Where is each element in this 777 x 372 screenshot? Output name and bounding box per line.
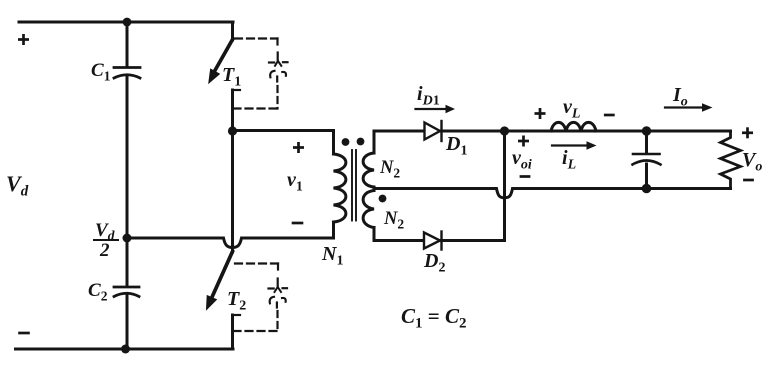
wire output top rail [505, 130, 731, 133]
wire capacitor-leg lower [126, 238, 129, 286]
label + (voi plus) [518, 136, 529, 147]
resistor load Vo [721, 131, 741, 189]
label Vd/2 [94, 220, 118, 261]
transistor T1 [209, 22, 240, 131]
node A (T1/T2 midpoint) [228, 126, 237, 135]
current arrow iD1 [416, 105, 456, 114]
wire capacitor-leg upper [126, 22, 129, 67]
wire D1 branch [374, 130, 505, 133]
wire filter cap bottom lead [645, 164, 648, 189]
node rectifier output [500, 126, 509, 135]
wire D2 branch [374, 239, 505, 242]
wire primary top (node A to winding) [233, 131, 334, 155]
polarity dot primary [342, 138, 350, 146]
wire output return rail with hop [374, 189, 731, 198]
transformer primary winding N1 [334, 154, 346, 222]
node Vd/2 junction [123, 234, 132, 243]
wire secondary bottom stub [373, 228, 376, 241]
wire T-leg middle (node A to T2) [231, 131, 234, 252]
transformer secondary winding N2 bottom [363, 191, 374, 228]
current arrow iL [552, 141, 597, 149]
node filter cap top [642, 126, 651, 135]
node filter cap bottom [642, 184, 652, 194]
label - (Vd minus) [18, 332, 30, 335]
current arrow Io [665, 103, 713, 112]
label + (Vo plus) [742, 127, 753, 138]
wire bottom rail [16, 348, 234, 351]
wire filter cap top lead [645, 131, 648, 153]
capacitor C1 [114, 68, 140, 79]
label - (vL minus) [604, 114, 615, 117]
label + (vL plus) [535, 108, 546, 119]
wire capacitor-leg bottom [126, 296, 129, 349]
wire primary bottom stub [332, 222, 335, 238]
wire top rail [19, 21, 233, 24]
polarity dot secondary top [357, 138, 365, 146]
transformer secondary winding N2 top [363, 153, 374, 187]
svg-text:2: 2 [99, 240, 110, 261]
snubber capacitor of T1 (dashed) [234, 39, 288, 109]
polarity dot secondary bottom [379, 195, 387, 203]
svg-text:C1 = C2: C1 = C2 [401, 304, 467, 332]
label - (Vo minus) [743, 179, 754, 182]
label - (v1 minus) [292, 222, 304, 225]
node top-left junction [123, 18, 132, 27]
wire middle (Vd/2 to primary bottom) with hop over T-leg [127, 238, 334, 248]
diode D1 [425, 121, 442, 141]
inductor L [551, 122, 596, 131]
wire secondary top stub [373, 131, 376, 153]
capacitor C2 [114, 287, 139, 297]
snubber capacitor of T2 (dashed) [234, 264, 288, 332]
wire capacitor-leg middle [126, 77, 129, 238]
diode D2 [424, 232, 442, 250]
node bottom junction [121, 345, 130, 354]
transistor T2 [207, 252, 241, 350]
capacitor C filter [633, 154, 661, 165]
wire rectifier output leg (D1 node down to D2) [503, 131, 506, 241]
label + (v1 plus) [293, 142, 304, 153]
label + (Vd plus) [18, 34, 29, 45]
label - (voi minus) [520, 175, 531, 178]
transformer core [352, 150, 356, 221]
